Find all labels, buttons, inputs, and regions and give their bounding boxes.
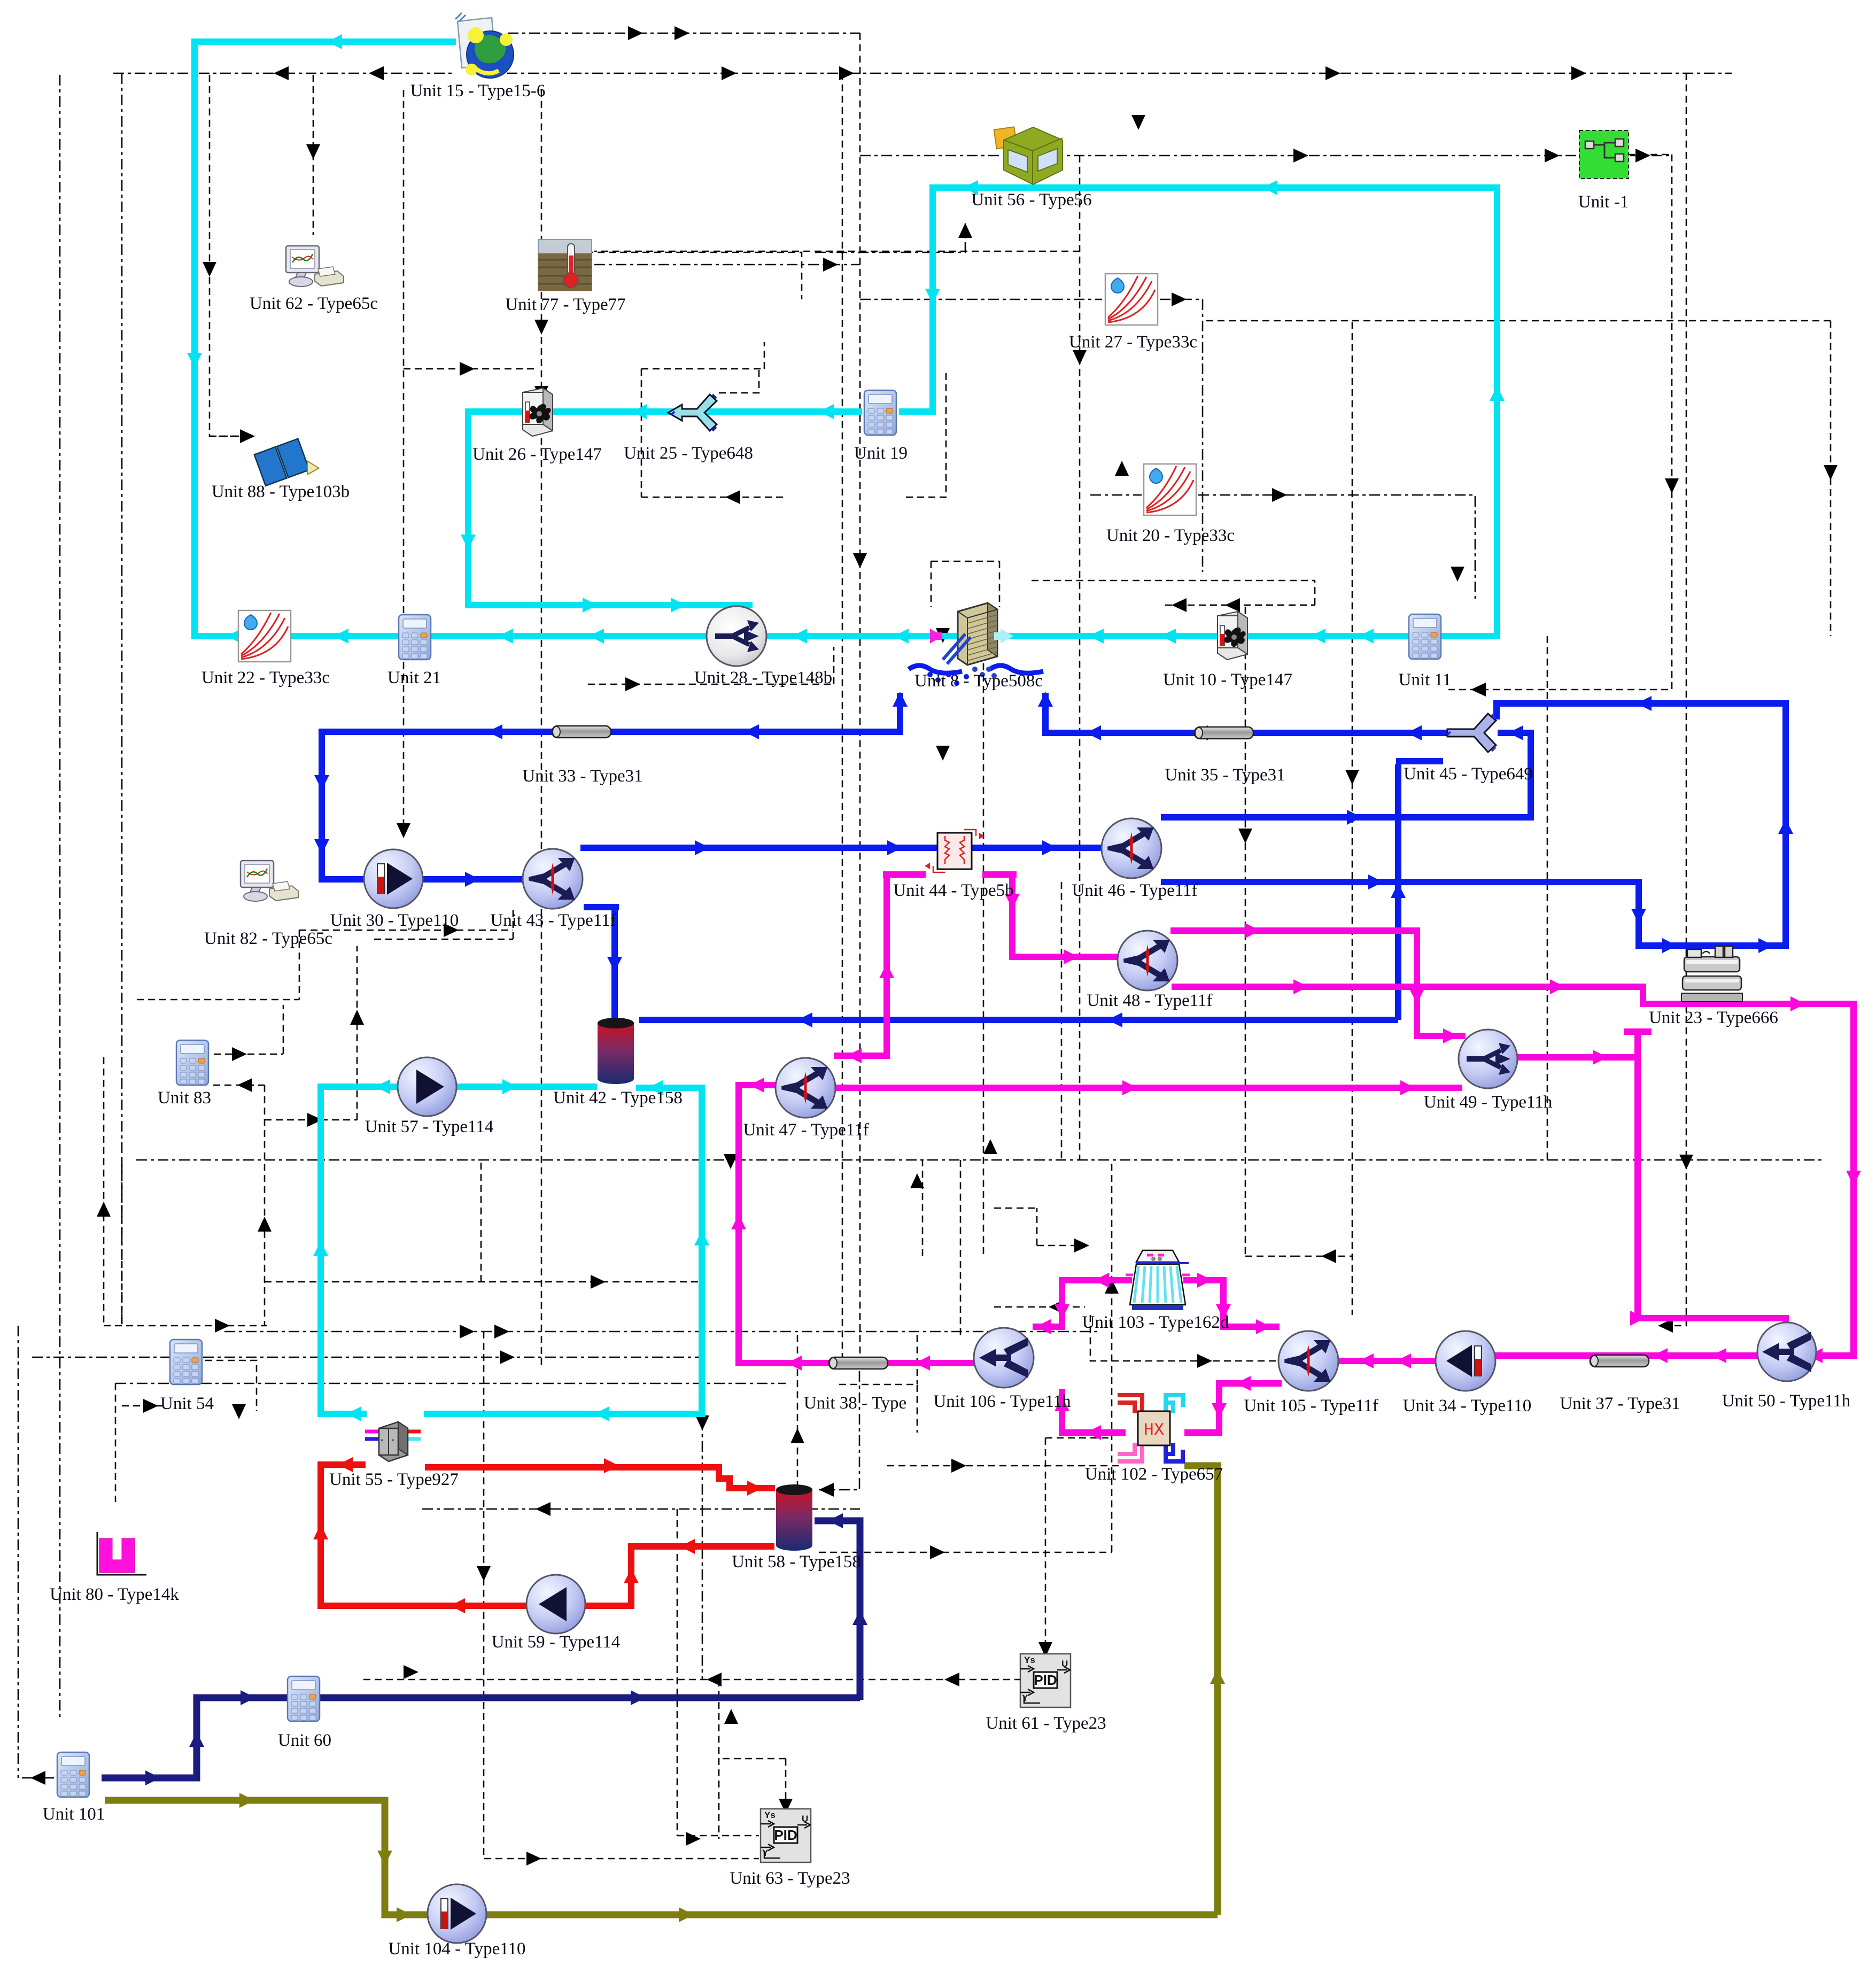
wire ctrl y2797 (422, 1371, 860, 1680)
tempering valve U46 (1102, 818, 1161, 878)
tempering valve U47 (776, 1058, 835, 1118)
wire ctrl y291 Unit56 row (860, 155, 1673, 157)
splitter U28 (707, 606, 766, 666)
diverter U25 (668, 394, 717, 431)
svg-text:Unit 15 - Type15-6: Unit 15 - Type15-6 (410, 81, 546, 100)
wire ctrl x586 to Unit62 (313, 75, 314, 235)
wire ctrl y560 Unit77 to Unit27 row (594, 265, 1102, 299)
wire ctrl left vertical x228 (121, 73, 123, 1326)
wire ctrl y472 (541, 252, 802, 299)
wire ctrl x905 vertical bottom (484, 1332, 759, 1859)
wire ctrl Unit54 out (122, 1360, 257, 1411)
svg-text:Unit 11: Unit 11 (1399, 670, 1452, 690)
PID U61 (1020, 1654, 1071, 1707)
wire blue valve43 bottom stub (584, 904, 619, 910)
wire ctrl HX bottom dashdot (887, 1465, 1122, 1467)
pump U104 (428, 1884, 486, 1943)
water-water HP U55 (365, 1422, 421, 1461)
wire olive Unit101 to pump104 run (105, 1800, 1218, 1915)
wire ctrl Unit27 right (1160, 299, 1203, 572)
wire cyan Unit19-Unit25-Unit26 run (468, 412, 862, 605)
wire magenta HX left to Unit106 bottom (1062, 1389, 1126, 1433)
wire ctrl x1726 x1797 bottom (923, 1160, 960, 1335)
calculator U60 (288, 1676, 320, 1721)
svg-text:HX: HX (1144, 1420, 1164, 1440)
tempering valve U105 (1278, 1331, 1338, 1391)
wire ctrl Unit 25 to up (719, 369, 759, 393)
wire blue tank42 to x2616 riser (639, 1017, 1398, 1023)
wire ctrl y2233 (121, 1160, 123, 1326)
wire red Unit55 right to tank58 top (425, 1467, 775, 1488)
wire ctrl x392 Unit62/88 (210, 75, 249, 436)
psychrometric chart U27 (1105, 274, 1158, 325)
magenta cap tick (1624, 1028, 1652, 1035)
svg-text:Unit 50 - Type11h: Unit 50 - Type11h (1722, 1391, 1851, 1411)
wire magenta valve47 right arm to valve49 lower (834, 1085, 1462, 1091)
svg-text:Unit 80 - Type14k: Unit 80 - Type14k (50, 1585, 179, 1604)
wire magenta tower right to Unit105 top (1183, 1280, 1280, 1327)
wire red pump59 to tank58 (585, 1546, 774, 1606)
wire ctrl bottom horizontal y2590 (18, 1326, 786, 1778)
wire cyan main horizontal (195, 633, 1497, 639)
wire cyan Unit55 to tank42 riser (424, 1088, 702, 1414)
svg-text:Unit 45 - Type649: Unit 45 - Type649 (1404, 764, 1533, 784)
svg-text:Unit 22 - Type33c: Unit 22 - Type33c (201, 668, 330, 687)
heat exchanger U102 (1118, 1395, 1183, 1461)
wire ctrl left vertical x112 (59, 75, 61, 1717)
heat exchanger U44 (925, 830, 984, 872)
svg-text:Unit 63 - Type23: Unit 63 - Type23 (730, 1869, 850, 1888)
wire cyan left riser to Unit 15 (195, 42, 456, 639)
wire magenta valve48 top to valve49 upper (1170, 931, 1466, 1036)
svg-text:Unit 33 - Type31: Unit 33 - Type31 (522, 767, 642, 786)
wire magenta Unit44 right stub tick (982, 871, 1017, 878)
wire magenta Unit34 to Unit105 (1337, 1358, 1437, 1364)
calculator U11 (1409, 614, 1441, 659)
svg-text:Unit 19: Unit 19 (854, 444, 908, 463)
tank U58 (776, 1484, 812, 1551)
svg-text:Unit 60: Unit 60 (278, 1731, 331, 1750)
wire ctrl long horizontal y2498 (32, 1332, 1101, 1357)
svg-text:Unit 105 - Type11f: Unit 105 - Type11f (1244, 1396, 1378, 1415)
wire magenta Unit44-right down to valve48 (1012, 878, 1118, 957)
svg-text:Unit 102 - Type657: Unit 102 - Type657 (1085, 1465, 1223, 1484)
wire ctrl Unit10 to Unit8 dashdot (1032, 581, 1315, 605)
forcing function U80 (97, 1532, 146, 1575)
wire ctrl x3155 long vertical (1660, 73, 1686, 1326)
chiller U23 (1681, 946, 1742, 1002)
wire blue Unit45 under-stub (1396, 758, 1443, 764)
wire ctrl Unit83 row (213, 946, 357, 1326)
wire olive riser to HX102 (1184, 1466, 1218, 1915)
wire blue Unit8 left drop to Unit30 (322, 693, 900, 879)
pump U34 (1436, 1331, 1495, 1391)
wire ctrl y2445 (994, 1306, 1085, 1308)
svg-text:Unit 34 - Type110: Unit 34 - Type110 (1403, 1396, 1532, 1415)
tempering valve U43 (523, 849, 583, 909)
PID U63 (761, 1809, 811, 1862)
wire magenta Unit44 left stub tick (883, 871, 926, 878)
svg-text:Unit 37 - Type31: Unit 37 - Type31 (1560, 1394, 1680, 1413)
calculator U19 (864, 390, 896, 435)
svg-text:Unit 42 - Type158: Unit 42 - Type158 (553, 1088, 683, 1108)
wire cyan right riser and top run to Unit 56/19 (899, 188, 1497, 639)
wire ctrl long mid horizontal y2170 (136, 1159, 1823, 1161)
wire magenta tower left to Unit106 top (1033, 1280, 1132, 1327)
psychrometric chart U22 (238, 610, 291, 662)
pump U57 (398, 1057, 456, 1116)
wire blue pump30 to valve43 (422, 876, 525, 883)
wire ctrl tank58 right to PID61 (819, 1160, 1112, 1649)
svg-text:Unit 88 - Type103b: Unit 88 - Type103b (212, 482, 350, 501)
wire cyan storage loop via Unit 57 (321, 1087, 597, 1414)
wire red Unit55 left to pump59 loop (321, 1465, 528, 1606)
wire blue valve43 upper-right to Unit44 and Unit46 (580, 845, 1102, 851)
tempering valve U48 (1118, 931, 1177, 990)
svg-text:Unit 59 - Type114: Unit 59 - Type114 (492, 1632, 621, 1652)
wire ctrl x1764,x1797 verticals mid (983, 607, 1061, 1256)
cooling coil U8 (930, 603, 1013, 678)
wire ctrl x755 Unit15 down (404, 90, 537, 834)
wire blue drop to tank42 (611, 910, 618, 1021)
svg-text:Unit 26 - Type147: Unit 26 - Type147 (472, 445, 602, 464)
psychrometric chart U20 (1144, 464, 1196, 515)
wire ctrl top long horizontal y137 (113, 73, 1732, 74)
svg-text:Unit 27 - Type33c: Unit 27 - Type33c (1069, 332, 1197, 352)
wire ctrl navy row to PID63 (718, 1680, 720, 1839)
svg-text:Unit 46 - Type11f: Unit 46 - Type11f (1072, 881, 1197, 900)
wire magenta valve49 right to Unit50 top (1517, 1035, 1786, 1325)
svg-text:Unit 30 - Type110: Unit 30 - Type110 (330, 911, 459, 930)
svg-text:Unit 8 - Type508c: Unit 8 - Type508c (914, 671, 1043, 691)
svg-text:Unit 58 - Type158: Unit 58 - Type158 (732, 1552, 861, 1572)
building U56 (994, 127, 1063, 184)
calculator U54 (170, 1340, 202, 1384)
wire ctrl x1267 vertical bottom (677, 1509, 759, 1836)
wire ctrl x3425 vertical right (1203, 321, 1831, 636)
wire ctrl below Unit28 (588, 647, 834, 684)
cyan flow arrows (227, 629, 242, 644)
wire ctrl x1492 vertical bottom (797, 1335, 917, 1509)
svg-text:Unit 38 - Type: Unit 38 - Type (804, 1394, 906, 1413)
wire ctrl Unit82 to Unit30 (137, 909, 513, 1000)
computer U62 (286, 246, 344, 287)
wire ctrl Unit -1 out right, down to Unit11 (1448, 154, 1672, 690)
splitter U50 (1757, 1322, 1816, 1381)
calculator U101 (57, 1752, 89, 1797)
svg-text:Unit -1: Unit -1 (1578, 192, 1629, 212)
wire blue Unit46 top to Unit45 lower arm (1161, 733, 1531, 817)
fan coil U26 (523, 388, 553, 436)
wire magenta Unit44-left down to valve47 (834, 878, 887, 1056)
wire magenta Unit105 lower-left to HX (1184, 1383, 1282, 1433)
svg-text:Unit 44 - Type5b: Unit 44 - Type5b (893, 881, 1013, 900)
svg-text:Unit 35 - Type31: Unit 35 - Type31 (1165, 765, 1285, 785)
wire ctrl y62 from Unit15 (508, 33, 860, 34)
pipe U35 (1195, 727, 1253, 739)
svg-text:Unit 77 - Type77: Unit 77 - Type77 (505, 295, 625, 314)
splitter U106 (974, 1328, 1034, 1388)
fan coil U10 (1218, 612, 1247, 660)
wire ctrl x2020 vertical (594, 156, 1080, 1160)
svg-text:Unit 47 - Type11f: Unit 47 - Type11f (743, 1120, 869, 1140)
pump U59 (526, 1575, 585, 1634)
wire blue riser x2616 (1395, 764, 1401, 1020)
pump U30 (364, 849, 423, 908)
wire blue Unit45 stem to Unit8 (1045, 693, 1448, 733)
wire magenta Unit50 left arm to Unit34 (1494, 1352, 1759, 1359)
svg-text:Unit 62 - Type65c: Unit 62 - Type65c (250, 294, 378, 313)
svg-text:Unit 82 - Type65c: Unit 82 - Type65c (204, 929, 332, 948)
wire ctrl riser to Unit56 (815, 223, 965, 252)
wire ctrl y2350 row (115, 1383, 117, 1502)
pipe U33 (552, 726, 611, 738)
svg-text:Unit 106 - Type11h: Unit 106 - Type11h (933, 1392, 1071, 1411)
calculator U21 (399, 615, 431, 660)
svg-text:Unit 101: Unit 101 (43, 1805, 105, 1824)
macro U-1 (1579, 130, 1629, 179)
svg-text:Unit 55 - Type927: Unit 55 - Type927 (329, 1470, 459, 1489)
splitter U49 (1459, 1030, 1517, 1088)
svg-text:Unit 21: Unit 21 (387, 668, 441, 687)
svg-text:Unit 28 - Type148b: Unit 28 - Type148b (694, 668, 832, 687)
mixer U45 (1447, 714, 1496, 752)
wire ctrl Unit19 box (641, 342, 946, 497)
wire ctrl x2860 x2895 verticals (1547, 636, 1548, 1160)
soil temperature U77 (538, 239, 592, 291)
svg-text:Unit 57 - Type114: Unit 57 - Type114 (365, 1117, 494, 1136)
wire ctrl Unit103 top left (994, 1208, 1085, 1245)
wire ctrl x530 lower (104, 1325, 267, 1327)
calculator U83 (176, 1040, 208, 1085)
wire navy riser to tank58 (815, 1521, 860, 1700)
svg-text:Unit 49 - Type11h: Unit 49 - Type11h (1424, 1093, 1553, 1112)
cooling tower U103 (1126, 1250, 1190, 1310)
pipe U37 (1590, 1355, 1649, 1367)
computer U82 (241, 861, 298, 901)
wire ctrl Unit8 region verticals (931, 561, 999, 607)
weather reader U15 (455, 13, 514, 78)
wire ctrl tower dash right (1293, 1256, 1352, 1257)
svg-text:Unit 61 - Type23: Unit 61 - Type23 (986, 1714, 1106, 1733)
wire navy Unit101 to Unit60 run (102, 1698, 860, 1778)
wire ctrl left x256 lower (103, 1057, 105, 1326)
blue drip squiggles under Unit 8 (909, 666, 962, 673)
svg-text:Unit 23 - Type666: Unit 23 - Type666 (1649, 1008, 1778, 1027)
svg-text:Unit 48 - Type11f: Unit 48 - Type11f (1087, 991, 1212, 1010)
svg-text:Unit 10 - Type147: Unit 10 - Type147 (1163, 670, 1292, 690)
svg-text:Unit 83: Unit 83 (158, 1088, 211, 1108)
svg-text:Unit 103 - Type162d: Unit 103 - Type162d (1082, 1313, 1229, 1332)
svg-text:Unit 43 - Type11f: Unit 43 - Type11f (490, 911, 616, 930)
solar collector U88 (254, 436, 320, 490)
svg-text:Unit 20 - Type33c: Unit 20 - Type33c (1106, 526, 1235, 545)
wire blue Unit46 bottom to chiller to Unit45 top (1161, 703, 1786, 946)
svg-text:Unit 25 - Type648: Unit 25 - Type648 (624, 444, 753, 463)
wire ctrl x1576 x1609 verticals (842, 33, 860, 1357)
pipe U38 (829, 1357, 888, 1369)
wire ctrl x2330 vertical (1210, 605, 1315, 1256)
wire ctrl y816 Unit88 (210, 436, 249, 437)
svg-text:Unit 56 - Type56: Unit 56 - Type56 (971, 190, 1091, 210)
wire ctrl x1013 Unit15 down through Unit26 (541, 90, 542, 1368)
wire ctrl Unit103 to Unit105 (1090, 1315, 1277, 1361)
wire ctrl y1006 Unit20 row (1090, 495, 1475, 599)
svg-text:Unit 54: Unit 54 (160, 1394, 214, 1413)
wire ctrl x2530 vertical (1352, 322, 1353, 1315)
wire ctrl PID61 left (363, 1679, 1020, 1681)
wire ctrl y2290 row to cyan (265, 1160, 699, 1282)
tank U42 (598, 1018, 634, 1084)
svg-text:Unit 104 - Type110: Unit 104 - Type110 (388, 1939, 525, 1959)
wire magenta valve48 bottom to chiller to Unit50 right (1172, 987, 1854, 1356)
wire magenta Unit106 left arm to valve47 (739, 1085, 975, 1363)
wire ctrl PID63 top (719, 1759, 786, 1806)
